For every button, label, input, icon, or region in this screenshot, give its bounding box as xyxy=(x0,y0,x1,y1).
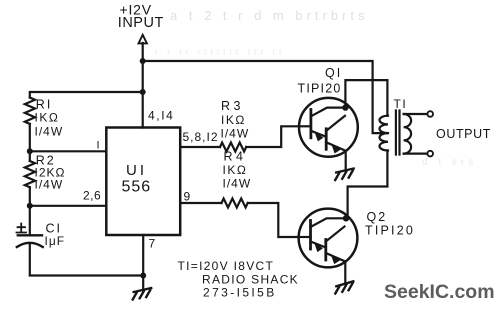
svg-text:I: I xyxy=(97,140,100,152)
label 556 xyxy=(122,179,152,196)
transistor Q1 xyxy=(299,98,358,157)
svg-text:2,6: 2,6 xyxy=(83,189,101,203)
resistor R1 xyxy=(25,98,35,124)
wire: pin 9 to R4 xyxy=(180,202,221,204)
ground G1 xyxy=(335,169,354,181)
resistor R4 xyxy=(222,199,248,208)
capacitor C1 top plate xyxy=(18,234,42,236)
label R4 value 1K ohm xyxy=(223,163,248,177)
input arrow xyxy=(139,35,147,44)
label Q2 xyxy=(367,210,388,224)
label R2 value 12K ohm xyxy=(35,166,66,180)
svg-text:a t 2 t r d m brtrbrts: a t 2 t r d m brtrbrts xyxy=(170,8,369,23)
label OUTPUT xyxy=(436,127,491,141)
svg-text:UI: UI xyxy=(126,162,147,179)
transformer T1 secondary winding xyxy=(404,114,412,154)
wire: secondary top to output terminal xyxy=(404,113,428,115)
svg-text:RADIO SHACK: RADIO SHACK xyxy=(202,273,299,287)
wire: pin 1 of U1 xyxy=(30,150,107,152)
wire: R3 to Q1 base xyxy=(246,126,299,147)
label Q1 type TIP120 xyxy=(298,82,342,96)
capacitor C1 plus sign xyxy=(17,224,27,233)
ground G2 xyxy=(335,281,353,293)
svg-text:4,I4: 4,I4 xyxy=(148,109,174,123)
svg-text:TI=I20V I8VCT: TI=I20V I8VCT xyxy=(178,259,275,273)
label +12V xyxy=(120,2,152,18)
pin label 1 xyxy=(97,140,100,152)
wire: R4 to Q2 base xyxy=(248,203,299,237)
wire: transformer primary bottom to Q2 collector xyxy=(348,151,388,219)
label R1 xyxy=(36,98,53,112)
svg-text:OUTPUT: OUTPUT xyxy=(436,127,491,141)
note T1 transformer spec line 1 xyxy=(178,259,275,273)
wire: U1 pin 7 down to ground xyxy=(142,235,144,289)
junction dot D5 xyxy=(140,273,146,279)
transformer T1 core xyxy=(396,111,400,155)
svg-text:273-I5I5B: 273-I5I5B xyxy=(203,286,277,300)
op-amp U1 556 IC box xyxy=(106,128,180,236)
svg-text:7: 7 xyxy=(149,237,156,251)
label Q2 type TIP120 xyxy=(365,224,415,238)
svg-text:r r rr rrrrrrr rrr rr: r r rr rrrrrrr rrr rr xyxy=(155,47,285,58)
capacitor C1 bottom plate xyxy=(17,243,43,247)
label R4 rating 1/4W xyxy=(223,177,252,191)
output terminal bottom xyxy=(427,151,433,157)
wire: R2 bottom to C1 xyxy=(29,187,31,235)
label U1 xyxy=(126,162,147,179)
wire: Q1 emitter to ground xyxy=(345,151,347,169)
svg-text:QI: QI xyxy=(325,66,342,80)
svg-text:IμF: IμF xyxy=(45,234,66,248)
wire: C1 bottom to ground rail xyxy=(30,245,143,276)
label Q1 xyxy=(325,66,342,80)
pin label 7 xyxy=(149,237,156,251)
svg-text:5,8,I2: 5,8,I2 xyxy=(183,130,219,144)
svg-text:I/4W: I/4W xyxy=(221,127,250,141)
label R3 xyxy=(221,99,244,113)
output terminal top xyxy=(427,111,433,117)
label R1 rating 1/4W xyxy=(35,125,64,139)
pin label 4,14 xyxy=(148,109,174,123)
svg-text:R3: R3 xyxy=(221,99,244,113)
svg-text:d t srs: d t srs xyxy=(422,157,477,168)
pin label 2,6 xyxy=(83,189,101,203)
label R4 xyxy=(224,150,247,164)
pin label 9 xyxy=(184,189,191,203)
junction dot D4 xyxy=(27,203,33,209)
junction dot D3 xyxy=(27,148,33,154)
label C1 value 1uF xyxy=(45,234,66,248)
resistor R2 xyxy=(25,161,35,187)
label INPUT xyxy=(118,15,164,31)
svg-text:I/4W: I/4W xyxy=(35,125,64,139)
wire: +12V rail to transformer center tap xyxy=(143,61,388,133)
wire: pin 2,6 of U1 xyxy=(30,205,107,207)
label T1 xyxy=(394,97,408,111)
wire: Q1 collector to transformer primary top xyxy=(345,80,387,116)
svg-text:SeekIC.com: SeekIC.com xyxy=(384,281,495,303)
wire: input vertical to U1 pin 4,14 xyxy=(142,43,144,128)
wire: secondary bottom to output terminal xyxy=(404,153,428,155)
wire: R1 bottom to R2 top xyxy=(29,124,31,161)
label R2 xyxy=(36,154,56,168)
wire: Q2 emitter to ground xyxy=(344,262,346,283)
ground G3 xyxy=(133,288,152,300)
svg-text:I/4W: I/4W xyxy=(223,177,252,191)
wire: rail to R1 top xyxy=(30,92,143,98)
label R3 rating 1/4W xyxy=(221,127,250,141)
transistor Q2 xyxy=(299,209,358,268)
note T1 transformer spec line 3 xyxy=(203,286,277,300)
svg-text:R4: R4 xyxy=(224,150,247,164)
svg-text:IKΩ: IKΩ xyxy=(221,113,246,127)
svg-text:IKΩ: IKΩ xyxy=(223,163,248,177)
svg-text:TIPI20: TIPI20 xyxy=(298,82,342,96)
svg-text:TI: TI xyxy=(394,97,408,111)
svg-text:RI: RI xyxy=(36,98,53,112)
svg-text:INPUT: INPUT xyxy=(118,15,164,31)
wire: pin 5,8,12 to R3 xyxy=(180,146,220,148)
svg-text:556: 556 xyxy=(122,179,152,196)
svg-text:Q2: Q2 xyxy=(367,210,388,224)
svg-text:IKΩ: IKΩ xyxy=(35,111,60,125)
resistor R3 xyxy=(220,143,246,152)
pin label 5,8,12 xyxy=(183,130,219,144)
svg-text:I/4W: I/4W xyxy=(35,178,64,192)
label C1 xyxy=(46,222,63,236)
label R1 value 1K ohm xyxy=(35,111,60,125)
note T1 transformer spec line 2 xyxy=(202,273,299,287)
svg-text:TIPI20: TIPI20 xyxy=(365,224,415,238)
label R2 rating 1/4W xyxy=(35,178,64,192)
junction dot D2 xyxy=(140,89,146,95)
transformer T1 primary winding xyxy=(380,116,389,151)
junction dot D1 xyxy=(140,58,146,64)
svg-text:9: 9 xyxy=(184,189,191,203)
label R3 value 1K ohm xyxy=(221,113,246,127)
